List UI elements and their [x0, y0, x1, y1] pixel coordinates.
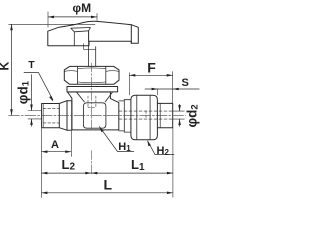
T leader: [24, 73, 53, 100]
K top extension line: [9, 23, 95, 25]
stem: [89, 41, 96, 66]
phid2 dimension line: [179, 104, 181, 126]
svg-text:H2: H2: [157, 145, 170, 157]
right union band 1: [119, 100, 125, 132]
phid1 arrowheads: [30, 105, 33, 111]
thread root dashed lines: [43, 108, 59, 123]
svg-text:φd1: φd1: [16, 80, 32, 104]
horizontal centerline: [9, 114, 186, 116]
svg-text:H1: H1: [118, 141, 131, 153]
tube end cylinder: [157, 103, 172, 127]
svg-text:K: K: [0, 62, 12, 71]
bonnet hex nut: [64, 66, 119, 84]
svg-text:L: L: [104, 177, 113, 193]
svg-text:φd2: φd2: [185, 104, 201, 127]
A arrowheads: [41, 150, 47, 153]
bonnet chamfer arcs: [65, 68, 119, 83]
L2 arrowheads: [41, 172, 47, 175]
phid2 arrowheads: [178, 105, 181, 111]
handle hub right edge: [88, 31, 90, 42]
bore hidden dashed lines: [119, 111, 173, 119]
body hidden cavity dashes: [88, 96, 96, 108]
H2 leader: [148, 141, 174, 155]
handle right cap edge: [130, 25, 132, 44]
handle outline: [48, 21, 139, 45]
bonnet hex flats: [78, 67, 106, 85]
H2 arrowhead: [147, 140, 151, 146]
phiM extension lines: [48, 12, 97, 27]
svg-text:T: T: [28, 59, 35, 71]
svg-text:F: F: [147, 60, 156, 76]
svg-text:A: A: [51, 139, 59, 151]
F dimension line: [129, 74, 172, 76]
compression nut: [131, 95, 158, 139]
vertical centerline / L2-L1 extension: [90, 63, 92, 175]
svg-text:L2: L2: [62, 157, 76, 173]
body boss face: [83, 103, 106, 128]
phiM dimension line: [48, 16, 97, 18]
thread chamfer line: [42, 104, 44, 128]
L arrowheads: [41, 192, 47, 195]
F extension lines: [129, 72, 172, 104]
right extension line: [172, 128, 174, 197]
phiM arrowheads: [48, 16, 54, 19]
tube end hidden dash: [145, 111, 147, 119]
L1 arrowheads: [91, 172, 97, 175]
H1 leader: [99, 127, 133, 152]
phid2 extension lines: [173, 111, 185, 119]
handle hub inner notch: [83, 44, 95, 50]
handle hub top face: [71, 28, 91, 32]
right union band 2: [124, 100, 131, 132]
svg-text:L1: L1: [131, 157, 145, 173]
svg-text:φM: φM: [73, 1, 92, 15]
boss shoulder chamfers: [77, 92, 113, 102]
body top flange: [67, 87, 118, 92]
ferrule line: [159, 103, 161, 127]
A extension lines: [41, 129, 71, 198]
F arrowheads: [129, 74, 135, 77]
handle hub left edge: [73, 32, 75, 46]
phid1 extension lines: [28, 111, 41, 119]
left threaded port: [42, 104, 60, 128]
port washer flange: [67, 101, 72, 131]
S dimension line: [145, 88, 199, 90]
T leader arrowhead: [49, 96, 53, 102]
K arrowheads: [10, 24, 13, 30]
phid1 dimension line: [31, 75, 33, 127]
S extension line: [157, 89, 159, 95]
valve body: [68, 92, 119, 130]
H1 arrowhead: [99, 126, 103, 132]
nut hex flats: [137, 95, 150, 139]
svg-text:S: S: [182, 77, 189, 89]
S arrowheads: [152, 88, 158, 91]
L dimension line: [41, 192, 173, 194]
K dimension line: [11, 24, 13, 115]
port taper cone: [59, 101, 67, 131]
L2 L1 dimension line: [41, 172, 173, 174]
A dimension line: [41, 151, 71, 153]
